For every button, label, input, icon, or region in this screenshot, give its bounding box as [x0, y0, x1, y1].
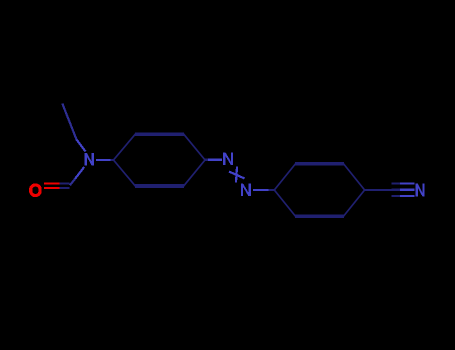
bond N-ring1, N half (bright blue): [96, 159, 110, 161]
bond N2-ring2, N half (bright blue): [253, 189, 269, 191]
azo N1=N2 double bond stroke B (shallow): [229, 172, 245, 179]
bond C1-N amide, N half (bright blue): [75, 167, 84, 179]
atom O (carbonyl oxygen): [31, 185, 40, 196]
bond N-ring1, C half (navy): [111, 159, 115, 161]
bond C1-N amide, C half (navy): [70, 179, 75, 186]
ring1 bottom edge (aromatic double, merged): [135, 184, 184, 188]
bond N-CH3 methyl, N half (bright blue): [77, 140, 86, 152]
atom N1 (azo nitrogen): [223, 152, 233, 165]
atom N2 (azo nitrogen): [241, 184, 251, 197]
ring1 top edge (aromatic double, merged): [135, 132, 184, 136]
benzene ring 1 (left), carbon skeleton navy: [114, 133, 206, 187]
bond ring1-N1 azo, N half (bright blue): [208, 159, 222, 161]
ring2 top edge (aromatic double, merged): [295, 162, 344, 166]
ring1 diagonal edges: [114, 133, 206, 187]
ring2 bottom edge (aromatic double, merged): [295, 214, 344, 218]
azo N1=N2 double bond stroke A (steep): [236, 167, 237, 183]
bond N2-ring2, C half (navy): [269, 189, 274, 191]
atom N (amide nitrogen): [85, 153, 94, 166]
nitrile C#N triple bond, N half (bright blue): [400, 184, 415, 196]
bond N-CH3 methyl, C half (navy): [62, 104, 76, 140]
nitrile C#N triple bond, C half (navy): [392, 184, 401, 196]
bond ring1-N1 azo, C half (navy): [205, 159, 208, 161]
benzene ring 2 (right), carbon skeleton navy: [274, 163, 364, 217]
bond C1=O double bond, O half (red): [44, 183, 60, 188]
ring2 diagonal edges: [274, 163, 364, 217]
atom N (nitrile nitrogen): [416, 184, 425, 197]
bond ring2-C nitrile (navy): [365, 189, 392, 191]
bond C1=O double bond, C half (navy): [60, 183, 70, 188]
